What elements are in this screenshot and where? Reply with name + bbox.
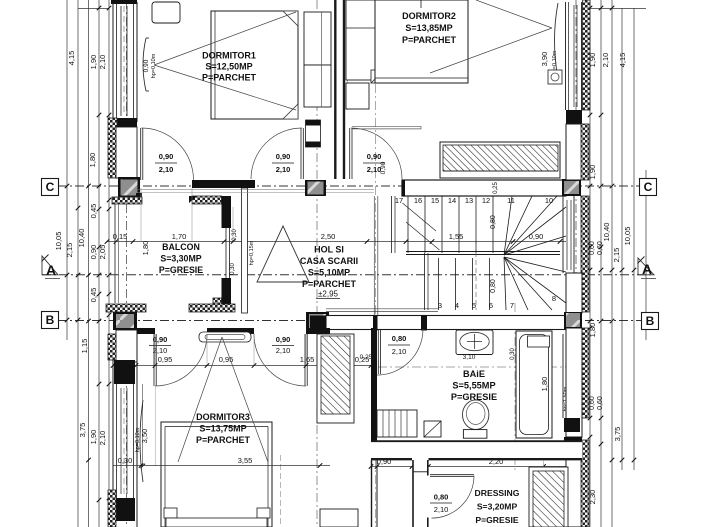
left wall pier below window: [112, 118, 137, 127]
d1 south wall face lines: [137, 189, 374, 191]
svg-text:17: 17: [395, 196, 403, 205]
svg-text:S=13,85MP: S=13,85MP: [405, 23, 452, 33]
dim row d3 tick: [134, 363, 139, 368]
grid axis 2 vertical right wall: [575, 0, 577, 527]
svg-text:0,30: 0,30: [118, 456, 133, 465]
svg-text:3,10: 3,10: [463, 354, 476, 361]
right dim tick: [610, 458, 615, 463]
svg-text:2,10: 2,10: [434, 505, 449, 514]
svg-text:2,10: 2,10: [392, 347, 407, 356]
dim row baie tick: [369, 464, 374, 469]
d2 bed inner line: [375, 77, 468, 79]
svg-text:1,70: 1,70: [172, 232, 187, 241]
svg-text:0,80: 0,80: [490, 279, 497, 293]
right dim tick: [610, 268, 615, 273]
left dim tick: [97, 498, 102, 503]
stair travel line: [475, 196, 477, 310]
dim row d3 tick: [369, 363, 374, 368]
svg-text:7: 7: [510, 301, 514, 310]
stair south wall pier left: [310, 316, 326, 331]
balcon se zipper: [213, 298, 222, 306]
svg-text:13: 13: [465, 196, 473, 205]
d1 south wall seg a: [192, 180, 255, 188]
right dim tick: [588, 184, 593, 189]
svg-text:C: C: [46, 180, 55, 194]
dim row baie tick: [580, 464, 585, 469]
right dim line 3: [611, 0, 613, 527]
grid axis C horizontal: [58, 185, 652, 187]
balcon east glazing: [225, 228, 227, 278]
stair riser up 3: [458, 196, 460, 253]
dim row mid line: [107, 241, 566, 243]
right dim tick: [632, 268, 637, 273]
dressing west wall: [413, 460, 429, 527]
baie bench: [377, 410, 417, 437]
right dim line 4: [621, 8, 623, 470]
svg-text:3,55: 3,55: [238, 456, 253, 465]
right wall hatch3: [581, 328, 589, 418]
svg-text:3,75: 3,75: [613, 427, 622, 442]
d3 window symbol: [199, 332, 251, 342]
d3 west pier upper: [114, 360, 135, 384]
d3 pillow band: [166, 518, 267, 527]
stair riser up 5: [492, 196, 494, 253]
svg-text:0,90: 0,90: [380, 161, 387, 174]
right dim tick: [588, 245, 593, 250]
right dim tick: [588, 435, 593, 440]
stair riser low 0: [438, 258, 440, 310]
svg-text:10,40: 10,40: [77, 229, 86, 248]
dim row mid tick: [430, 239, 435, 244]
svg-text:0,60: 0,60: [589, 396, 596, 410]
svg-text:0,90: 0,90: [159, 152, 174, 161]
hol triangle: [257, 226, 309, 282]
right wall hatch1: [581, 124, 589, 180]
left dim tick: [97, 207, 102, 212]
d3 wardrobe: [317, 334, 354, 423]
right dim line 6: [645, 170, 647, 340]
left dim tick: [107, 496, 112, 501]
d1 window sill curve: [143, 38, 146, 91]
stair window: [562, 196, 564, 273]
left dim tick: [86, 458, 91, 463]
left dim tick: [65, 184, 70, 189]
baie small box: [424, 421, 441, 437]
right dim tick: [610, 319, 615, 324]
d1 d2 partition: [337, 0, 344, 179]
svg-text:0,90: 0,90: [89, 245, 98, 260]
d3 door left leaf: [153, 334, 155, 386]
right wall pier at B: [564, 312, 582, 328]
grid axis 5 vertical tub edge: [514, 303, 516, 470]
svg-text:DORMITOR3: DORMITOR3: [196, 412, 250, 422]
ext line balcon door: [140, 188, 142, 241]
dim row d3 tick: [328, 363, 333, 368]
svg-text:1,90: 1,90: [89, 55, 98, 70]
d2 light line a: [430, 28, 552, 73]
left dim tick: [65, 318, 70, 323]
svg-text:6: 6: [489, 301, 493, 310]
svg-text:0,95: 0,95: [158, 355, 173, 364]
svg-text:3,75: 3,75: [78, 423, 87, 438]
right dim tick: [620, 458, 625, 463]
dim row mid tick: [222, 239, 227, 244]
d3 desk right: [320, 509, 358, 527]
left dim tick: [86, 273, 91, 278]
svg-text:0,30: 0,30: [510, 348, 516, 360]
baie west wall: [371, 328, 377, 444]
svg-text:0,45: 0,45: [89, 288, 98, 303]
d3 west hatch top: [108, 334, 116, 360]
baie sink: [456, 330, 493, 355]
wardrobe hol rail: [443, 170, 558, 172]
svg-text:12: 12: [482, 196, 490, 205]
svg-text:0,90: 0,90: [276, 152, 291, 161]
right dim line 1: [589, 0, 591, 527]
hol east boundary lines: [373, 196, 375, 316]
svg-text:2,05: 2,05: [98, 245, 107, 260]
dim row baie tick: [426, 464, 431, 469]
right dim tick: [588, 326, 593, 331]
svg-text:CASA SCARII: CASA SCARII: [300, 256, 358, 266]
grid bubble C left: [42, 179, 59, 196]
d2 window right outer: [565, 2, 567, 110]
svg-text:BALCON: BALCON: [162, 242, 200, 252]
stair riser low 3: [489, 258, 491, 310]
svg-text:4: 4: [455, 301, 459, 310]
d1 window glazing: [120, 6, 122, 116]
pier se balcon: [306, 312, 329, 330]
svg-text:1,55: 1,55: [449, 232, 464, 241]
svg-text:2,10: 2,10: [276, 346, 291, 355]
svg-text:S=3,30MP: S=3,30MP: [160, 254, 201, 264]
stair riser up 1: [424, 196, 426, 253]
svg-text:10,05: 10,05: [54, 232, 63, 251]
right wall pier y418: [564, 418, 580, 432]
svg-text:S=5,55MP: S=5,55MP: [452, 381, 495, 391]
ext lines d3 doors: [154, 334, 156, 365]
baie wc: [463, 400, 489, 430]
left dim tick: [65, 273, 70, 278]
ext line hol width: [232, 207, 234, 241]
svg-text:HOL SI: HOL SI: [314, 245, 344, 255]
dim row d3 tick: [205, 363, 210, 368]
svg-text:0,90: 0,90: [529, 232, 544, 241]
svg-text:B: B: [46, 313, 55, 327]
right dim tick: [599, 184, 604, 189]
left dim tick: [97, 113, 102, 118]
right wall hatch4: [581, 440, 589, 527]
svg-text:1,80: 1,80: [141, 241, 150, 256]
svg-text:0,80: 0,80: [490, 215, 497, 229]
pier sw balcon: [113, 312, 137, 330]
balcon north parapet: [192, 196, 222, 204]
left dim tick: [97, 273, 102, 278]
d3 window sill curve: [140, 400, 143, 482]
svg-text:0,45: 0,45: [89, 204, 98, 219]
svg-text:0,60: 0,60: [589, 241, 596, 255]
d1 pillow top: [283, 11, 298, 26]
right dim tick: [588, 268, 593, 273]
hall west lines: [371, 460, 373, 527]
svg-text:A: A: [642, 261, 652, 277]
balcon door leaf: [140, 128, 142, 180]
d3 west pier lower: [114, 498, 135, 521]
svg-text:14: 14: [448, 196, 456, 205]
right wall band y273-313: [566, 273, 582, 313]
svg-text:2,50: 2,50: [321, 232, 336, 241]
dressing door arc: [432, 476, 475, 518]
svg-text:2,10: 2,10: [98, 431, 107, 446]
svg-text:1,90: 1,90: [89, 430, 98, 445]
svg-text:10: 10: [545, 196, 553, 205]
d1 south wall seg b: [305, 180, 326, 196]
dressing door leaf: [430, 474, 474, 476]
dim row mid tick: [114, 239, 119, 244]
left dim tick: [86, 319, 91, 324]
d2 closet: [346, 0, 378, 80]
stair riser low 2: [472, 258, 474, 310]
right dim tick: [599, 268, 604, 273]
svg-text:S=12,50MP: S=12,50MP: [205, 62, 252, 72]
shaft next to d1 door: [306, 120, 321, 147]
svg-text:2,10: 2,10: [601, 53, 610, 68]
left dim line 1: [66, 0, 68, 340]
balcon east wall lower bar: [222, 278, 232, 306]
svg-text:0,80: 0,80: [392, 334, 407, 343]
right dim tick: [588, 113, 593, 118]
d1 light line up: [154, 12, 296, 65]
stair north wall pier: [562, 179, 581, 196]
grid axis B horizontal: [58, 320, 652, 322]
baie tub: [516, 331, 552, 438]
stair winders low: [504, 257, 506, 310]
grid axis 3 vertical shaft: [316, 0, 318, 527]
d1 bed inner line: [214, 11, 216, 119]
baie tub faucet: [528, 336, 550, 347]
right wall band y328-437: [566, 328, 582, 437]
svg-text:A: A: [46, 262, 56, 278]
right dim line 5: [633, 8, 635, 470]
wall top-left corner: [111, 0, 137, 4]
right wall band y437-527: [566, 444, 582, 527]
svg-text:15: 15: [431, 196, 439, 205]
svg-text:1,80: 1,80: [540, 377, 549, 392]
wardrobe hol hatch: [443, 145, 558, 171]
svg-text:4,15: 4,15: [618, 53, 627, 68]
svg-text:P=PARCHET: P=PARCHET: [402, 35, 457, 45]
svg-text:16: 16: [414, 196, 422, 205]
d1 bed: [211, 11, 298, 119]
dim row d3 tick: [304, 363, 309, 368]
right dim line 2: [600, 0, 602, 527]
d3 west zip bottom: [108, 490, 116, 527]
svg-text:10,40: 10,40: [602, 223, 611, 242]
grid axis 6 horizontal baie: [378, 366, 566, 368]
svg-text:0,30: 0,30: [230, 263, 236, 275]
left dim tick: [97, 382, 102, 387]
left dim tick: [97, 245, 102, 250]
d3 west wall upper: [116, 330, 137, 362]
svg-text:P=GRESIE: P=GRESIE: [159, 265, 203, 275]
svg-text:DORMITOR1: DORMITOR1: [202, 51, 256, 61]
d2 door arc: [351, 128, 402, 179]
dim row mid tick: [365, 239, 370, 244]
d3 dim 3,50 line: [142, 384, 144, 466]
svg-text:1,15: 1,15: [80, 339, 89, 354]
hol west wall: [242, 188, 248, 313]
left dim tick: [107, 207, 112, 212]
svg-text:0,60: 0,60: [597, 241, 604, 255]
right dim tick: [588, 319, 593, 324]
stair flight bottom lines: [326, 308, 438, 310]
stair south wall pier right: [564, 316, 580, 330]
d2 door leaf: [349, 128, 351, 179]
left hatch corner balcon: [112, 197, 142, 204]
svg-text:P=PARCHET: P=PARCHET: [196, 435, 251, 445]
stair riser up 4: [475, 196, 477, 253]
d1 hol door arc: [251, 128, 302, 179]
balcon west slab edge: [114, 204, 116, 303]
d3 door right arc: [254, 334, 306, 386]
d3 dim 3,55 line: [113, 465, 330, 467]
grid axis 1 vertical left wall: [126, 0, 128, 527]
svg-text:P=PARCHET: P=PARCHET: [202, 73, 257, 83]
grid axis A horizontal (section line): [42, 274, 652, 276]
right dim tick: [599, 245, 604, 250]
svg-text:DORMITOR2: DORMITOR2: [402, 11, 456, 21]
left dim line 3: [88, 0, 90, 527]
svg-text:3,50: 3,50: [140, 429, 149, 444]
dressing wardrobe: [529, 467, 568, 527]
d3 bed inner line: [165, 426, 268, 428]
d1 hol door leaf: [300, 128, 302, 179]
svg-text:DRESSING: DRESSING: [475, 488, 520, 498]
dim row mid tick: [404, 239, 409, 244]
svg-text:S=5,10MP: S=5,10MP: [308, 268, 350, 278]
svg-text:BAiE: BAiE: [463, 369, 485, 379]
left dim tick: [107, 292, 112, 297]
svg-text:2,10: 2,10: [159, 165, 174, 174]
svg-text:8: 8: [552, 294, 556, 303]
d2 chair: [371, 70, 384, 83]
d2 window right inner: [581, 2, 583, 110]
svg-text:0,80: 0,80: [434, 493, 449, 502]
left dim tick: [107, 113, 112, 118]
baie door arc: [377, 329, 423, 375]
left dim tick: [97, 292, 102, 297]
d3 north wall seg a: [136, 328, 155, 334]
svg-text:0,90: 0,90: [367, 152, 382, 161]
left dim line 2: [77, 0, 79, 527]
right dim tick: [599, 6, 604, 11]
svg-text:P=GRESIE: P=GRESIE: [475, 515, 518, 525]
section mark A right: [638, 258, 654, 275]
left dim tick: [107, 198, 112, 203]
d2 light line b: [476, 0, 552, 28]
svg-text:±2,95: ±2,95: [318, 290, 339, 299]
svg-text:1,80: 1,80: [88, 153, 97, 168]
svg-text:4,15: 4,15: [67, 51, 76, 66]
d1 side table: [152, 2, 180, 23]
left dim tick: [97, 319, 102, 324]
right dim tick: [610, 184, 615, 189]
dim row baie line: [371, 466, 582, 468]
baie door jambs: [373, 316, 378, 331]
dim row baie tick: [564, 464, 569, 469]
svg-text:0,90: 0,90: [276, 335, 291, 344]
svg-text:C: C: [644, 180, 653, 194]
svg-text:P=GRESIE: P=GRESIE: [451, 392, 497, 402]
stair lower flight left edge: [424, 253, 426, 310]
svg-text:hp=0,15m: hp=0,15m: [249, 240, 255, 265]
d2 nightstand: [346, 83, 369, 109]
left wall hatch under pier: [108, 118, 117, 178]
svg-text:3: 3: [438, 301, 442, 310]
dim row baie tick: [541, 464, 546, 469]
svg-text:3,90: 3,90: [540, 52, 549, 67]
svg-text:0,25: 0,25: [360, 354, 373, 361]
right dim tick: [610, 6, 615, 11]
svg-text:2,10: 2,10: [276, 165, 291, 174]
d3 north wall seg b: [207, 328, 254, 334]
left dim tick: [97, 184, 102, 189]
top dim connector left: [78, 8, 109, 10]
d1 headboard upper: [304, 12, 331, 65]
left dim tick: [86, 184, 91, 189]
left dim tick: [107, 6, 112, 11]
left dim tick: [76, 273, 81, 278]
stair break diagonals: [403, 203, 437, 231]
svg-text:0,90: 0,90: [143, 59, 150, 72]
stair north wall: [402, 180, 566, 196]
d3 north wall seg c: [306, 328, 330, 334]
right wall band y124-180: [566, 124, 582, 180]
door stop wedge: [189, 196, 197, 203]
dim row mid tick: [131, 239, 136, 244]
balcon east wall upper bar: [222, 196, 232, 228]
right wall hatch2: [581, 196, 589, 312]
d3 light line b: [222, 337, 268, 462]
d1 light line down: [154, 65, 296, 110]
svg-text:10,05: 10,05: [623, 227, 632, 246]
baie window: [562, 334, 564, 418]
right wall pier under d2 window: [566, 110, 582, 124]
right dim tick: [588, 416, 593, 421]
grid bubble B right: [642, 313, 659, 330]
d1 headboard inner line: [321, 12, 323, 107]
d2 closet front lines: [352, 125, 421, 127]
svg-text:0,25: 0,25: [493, 182, 499, 194]
d2 window right glazing: [573, 5, 575, 107]
dim row mid tick: [231, 239, 236, 244]
grid axis 4 vertical baie wall: [375, 84, 377, 527]
pier grey d1/d2: [308, 182, 324, 195]
dim row d3 tick: [111, 363, 116, 368]
dim row baie tick: [410, 464, 415, 469]
svg-text:2,10: 2,10: [98, 55, 107, 70]
section mark A left: [42, 256, 58, 275]
stair upper flight left edge: [391, 196, 393, 253]
stair divider: [406, 251, 560, 253]
dim row d3 tick: [153, 363, 158, 368]
d3 light line a: [178, 337, 222, 462]
stair riser low 1: [455, 258, 457, 310]
grid bubble C right: [640, 179, 657, 196]
d2 bed: [375, 0, 468, 83]
d2 pillow divider: [420, 0, 422, 8]
stair winders up: [504, 196, 512, 255]
